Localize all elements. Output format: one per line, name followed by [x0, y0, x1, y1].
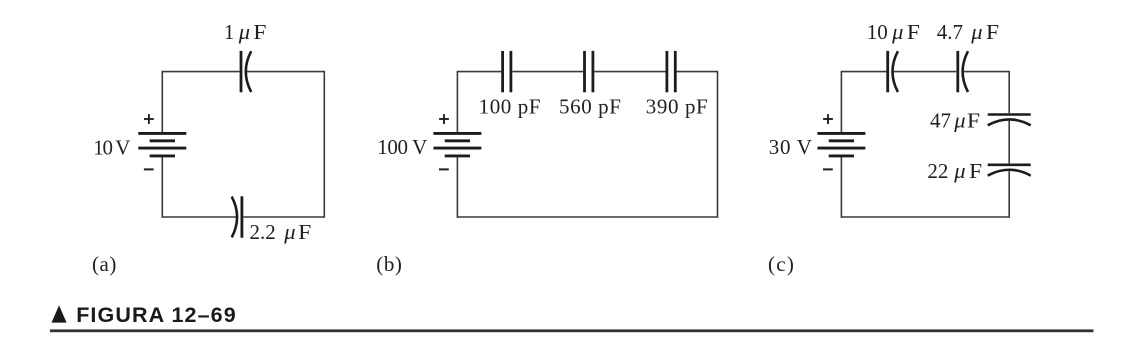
wire c-left-lower	[840, 157, 842, 218]
capacitor C4 (560 pF)	[585, 51, 593, 92]
battery plate bar2	[829, 139, 854, 142]
polarity +	[144, 114, 154, 124]
battery plate bar1	[138, 132, 186, 135]
capacitor C3 (100 pF)	[503, 51, 511, 92]
battery B3 (30 V)	[817, 114, 865, 169]
svg-text:μ: μ	[238, 19, 250, 44]
svg-text:F: F	[967, 109, 980, 133]
wire a-bottom-right	[243, 216, 324, 218]
battery plate bar4	[150, 154, 175, 157]
wire b-top-2	[512, 71, 583, 73]
svg-text:μ: μ	[970, 19, 982, 44]
wire c-top-2	[894, 71, 957, 73]
svg-text:10: 10	[867, 20, 888, 44]
svg-text:100 V: 100 V	[377, 135, 427, 159]
wire c-top-3	[964, 71, 1010, 73]
svg-text:F: F	[986, 20, 999, 44]
capacitor C2 (2.2 uF) bottom	[232, 196, 242, 237]
battery plate bar4	[445, 154, 470, 157]
wire c-top-1	[841, 71, 886, 73]
svg-text:1: 1	[224, 20, 235, 44]
svg-text:(a): (a)	[92, 252, 117, 276]
battery B2 (100 V)	[433, 114, 481, 169]
wire c-left-upper	[840, 71, 842, 133]
capacitor C5 (390 pF)	[667, 51, 675, 92]
caption rule	[50, 329, 1094, 332]
wire b-top-4	[677, 71, 718, 73]
wire c-right-3	[1008, 171, 1010, 218]
wire c-bottom	[841, 216, 1009, 218]
svg-text:4.7: 4.7	[937, 20, 963, 44]
circuit (a)	[92, 19, 324, 276]
label 47 uF	[930, 108, 980, 133]
wire a-top-left	[162, 71, 239, 73]
polarity -	[439, 168, 449, 170]
battery plate bar1	[817, 132, 865, 135]
svg-text:10 V: 10 V	[93, 135, 130, 159]
polarity +	[439, 114, 449, 124]
svg-text:100 pF: 100 pF	[479, 95, 542, 119]
label 10 uF	[867, 19, 920, 44]
svg-text:2.2: 2.2	[250, 220, 276, 244]
svg-text:390 pF: 390 pF	[646, 95, 709, 119]
svg-text:μ: μ	[283, 219, 295, 244]
wire b-top-3	[594, 71, 665, 73]
wire b-top-1	[457, 71, 501, 73]
polarity -	[823, 168, 833, 170]
wire a-top-right	[247, 71, 325, 73]
svg-text:F: F	[969, 159, 982, 183]
svg-text:FIGURA 12–69: FIGURA 12–69	[76, 303, 237, 327]
label 2.2 uF	[250, 219, 312, 244]
capacitor C1 (1 uF) top	[241, 51, 251, 92]
circuit (c)	[768, 19, 1031, 276]
wire c-right-1	[1008, 71, 1010, 113]
svg-text:μ: μ	[891, 19, 903, 44]
wire a-left-upper	[161, 71, 163, 133]
svg-text:22: 22	[927, 159, 948, 183]
battery plate bar3	[817, 147, 865, 150]
svg-text:F: F	[298, 220, 311, 244]
polarity -	[144, 168, 154, 170]
wire b-bottom	[457, 216, 717, 218]
wire b-right	[717, 71, 719, 218]
svg-text:(b): (b)	[376, 252, 402, 276]
wire a-right	[323, 71, 325, 218]
wire a-left-lower	[161, 157, 163, 218]
wire a-bottom-left	[162, 216, 237, 218]
wire c-right-2	[1008, 121, 1010, 164]
wire b-left-upper	[456, 71, 458, 133]
label 22 uF	[927, 158, 982, 183]
battery plate bar2	[445, 139, 470, 142]
label 4.7 uF	[937, 19, 999, 44]
wire b-left-lower	[456, 157, 458, 218]
capacitor C6 (10 uF)	[888, 51, 898, 92]
battery plate bar2	[150, 139, 175, 142]
label 1 uF	[224, 19, 267, 44]
circuit (b)	[376, 51, 717, 276]
svg-text:F: F	[907, 20, 920, 44]
battery plate bar1	[433, 132, 481, 135]
svg-text:560 pF: 560 pF	[559, 95, 622, 119]
svg-text:μ: μ	[953, 108, 965, 133]
svg-text:μ: μ	[953, 158, 965, 183]
battery B1 (10 V)	[138, 114, 186, 169]
svg-text:47: 47	[930, 109, 951, 133]
svg-text:(c): (c)	[768, 252, 795, 276]
battery plate bar4	[829, 154, 854, 157]
polarity +	[823, 114, 833, 124]
capacitor C9 (22 uF)	[988, 165, 1031, 176]
battery plate bar3	[433, 147, 481, 150]
svg-text:F: F	[253, 20, 266, 44]
battery plate bar3	[138, 147, 186, 150]
capacitor C7 (4.7 uF)	[958, 51, 968, 92]
capacitor C8 (47 uF)	[988, 115, 1031, 126]
figure caption marker triangle	[52, 305, 67, 322]
svg-text:30 V: 30 V	[769, 135, 813, 159]
